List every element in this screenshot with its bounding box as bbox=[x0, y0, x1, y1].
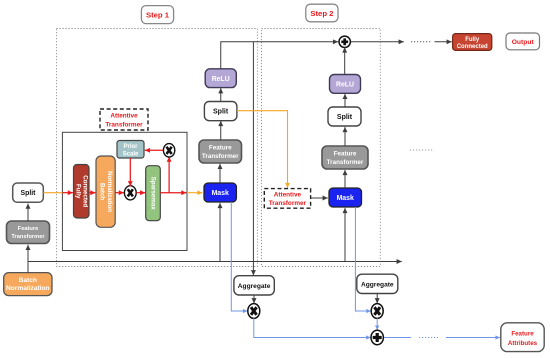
step 1 dashed region bbox=[57, 29, 258, 267]
dots continuation top right bbox=[411, 41, 431, 43]
step 2 dashed region bbox=[262, 29, 381, 267]
relu 2 bbox=[330, 75, 361, 94]
split 2 bbox=[328, 107, 361, 126]
multiply node (bottom left) bbox=[248, 304, 260, 319]
svg-text:Transformer: Transformer bbox=[327, 159, 364, 166]
svg-text:Fully: Fully bbox=[75, 184, 82, 199]
attentive transformer 2 (dashed) bbox=[264, 189, 310, 209]
feature transformer 2 bbox=[322, 146, 368, 169]
svg-text:Feature: Feature bbox=[334, 150, 357, 157]
feature transformer (left) bbox=[7, 221, 50, 244]
wire: feature transformer 2 up to split 2 bbox=[344, 127, 346, 146]
svg-text:Feature: Feature bbox=[209, 144, 232, 151]
fully connected output box bbox=[453, 34, 492, 51]
wire: bn to multiply node (red) bbox=[115, 192, 124, 194]
prior scale box bbox=[117, 141, 144, 159]
svg-text:Attentive: Attentive bbox=[110, 113, 138, 120]
svg-text:Feature: Feature bbox=[18, 226, 39, 232]
wire: split 1 to attentive transformer 2 (orange) bbox=[237, 111, 288, 188]
wire: branch down to aggregate 1 bbox=[252, 42, 254, 275]
multiply node (bottom right) bbox=[371, 304, 383, 319]
multiply node (prior) bbox=[124, 186, 136, 200]
output box bbox=[506, 33, 540, 50]
mask 2 bbox=[329, 188, 362, 207]
wire: fc to bn (red) bbox=[89, 192, 95, 194]
wire: split 2 up to relu 2 bbox=[344, 94, 346, 107]
batch normalization (input) bbox=[4, 273, 52, 296]
mask 1 bbox=[204, 183, 236, 202]
plus node (bottom) bbox=[371, 330, 383, 344]
svg-text:ReLU: ReLU bbox=[212, 76, 230, 83]
wire: mask 1 down (blue) bbox=[231, 202, 247, 311]
fully connected (vertical) bbox=[74, 165, 90, 219]
svg-text:Transformer: Transformer bbox=[105, 121, 143, 128]
step 2 label bbox=[306, 4, 338, 22]
svg-text:Batch: Batch bbox=[99, 183, 106, 200]
svg-text:Prior: Prior bbox=[123, 144, 138, 150]
wire: multiply to prior scale (red) bbox=[145, 149, 163, 151]
sum node (top) bbox=[339, 36, 350, 47]
svg-text:Fully: Fully bbox=[465, 37, 480, 43]
svg-text:Split: Split bbox=[337, 114, 353, 121]
svg-text:Connected: Connected bbox=[457, 44, 488, 50]
wire: feature line up into mask 1 bbox=[219, 203, 221, 262]
svg-text:Transformer: Transformer bbox=[11, 234, 45, 240]
step 1 label bbox=[141, 6, 173, 24]
feature transformer 1 bbox=[199, 140, 242, 163]
wire: feature transformer 1 up to split 1 bbox=[220, 121, 222, 140]
wire: plus node right (blue) bbox=[384, 337, 411, 339]
svg-text:Attributes: Attributes bbox=[508, 340, 538, 347]
svg-text:Step 1: Step 1 bbox=[146, 11, 170, 20]
wire: sparsemax output (red) bbox=[160, 192, 186, 194]
svg-text:Sparsemax: Sparsemax bbox=[150, 177, 157, 211]
svg-text:Scale: Scale bbox=[123, 151, 139, 157]
wire: aggregate 2 down to multiply bbox=[376, 294, 378, 304]
wire: red branch up to multiply top bbox=[168, 157, 170, 193]
svg-text:Transformer: Transformer bbox=[202, 153, 239, 160]
svg-text:Mask: Mask bbox=[337, 195, 354, 202]
svg-text:Split: Split bbox=[213, 109, 229, 116]
wire: mask 2 down (blue) bbox=[355, 207, 371, 311]
wire: feature transformer up to split bbox=[27, 204, 29, 222]
wire: prior scale down to multiply (red) bbox=[129, 158, 131, 186]
attentive transformer 1 label (dashed) bbox=[100, 109, 148, 130]
svg-text:Feature: Feature bbox=[511, 331, 534, 338]
aggregate 2 bbox=[357, 274, 398, 293]
wire: multiply 1 down and right to plus (blue) bbox=[254, 318, 371, 337]
wire: mask 2 up to feature transformer 2 bbox=[344, 170, 346, 188]
svg-text:Output: Output bbox=[512, 39, 535, 46]
aggregate 1 bbox=[234, 276, 274, 295]
svg-text:Split: Split bbox=[21, 190, 37, 197]
wire: mask 1 up to feature transformer 1 bbox=[219, 164, 221, 183]
svg-text:Batch: Batch bbox=[19, 277, 37, 284]
svg-text:Mask: Mask bbox=[212, 190, 229, 197]
svg-text:Transformer: Transformer bbox=[269, 200, 307, 207]
svg-text:Step 2: Step 2 bbox=[310, 9, 333, 18]
feature attributes box bbox=[501, 323, 544, 352]
split 1 bbox=[204, 102, 237, 121]
wire: relu 2 up to sum node bbox=[344, 47, 346, 74]
wire: multiply 2 down to plus (blue) bbox=[376, 318, 378, 330]
feature wire (long horizontal) bbox=[28, 261, 402, 263]
wire: relu1 up and right to sum node bbox=[221, 42, 338, 69]
relu 1 bbox=[205, 69, 236, 88]
wire: detail box to mask (orange) bbox=[187, 192, 202, 194]
wire: feature line up into mask 2 bbox=[344, 208, 346, 262]
svg-text:Connected: Connected bbox=[82, 175, 89, 207]
wire: split to attentive transformer (orange) bbox=[43, 192, 62, 194]
svg-text:Normalization: Normalization bbox=[6, 285, 50, 292]
wire: sum node output right bbox=[351, 41, 404, 43]
sparsemax bbox=[146, 166, 161, 221]
wire: aggregate 1 down to multiply bbox=[253, 295, 255, 303]
dots continuation bottom (blue) bbox=[419, 337, 438, 339]
svg-text:ReLU: ReLU bbox=[336, 81, 354, 88]
wire: batch norm up to feature transformer bbox=[27, 245, 29, 273]
svg-text:Aggregate: Aggregate bbox=[238, 283, 271, 290]
wire: into fully connected (red) bbox=[62, 192, 73, 194]
svg-text:Aggregate: Aggregate bbox=[361, 282, 394, 289]
wire: attentive transformer 2 to mask 2 bbox=[311, 197, 328, 199]
multiply node (top right of detail) bbox=[163, 144, 174, 157]
wire: into fully connected bbox=[435, 41, 452, 43]
svg-text:Attentive: Attentive bbox=[274, 191, 302, 198]
wire: multiply to sparsemax (red) bbox=[136, 192, 145, 194]
split (left) bbox=[13, 183, 44, 202]
attentive transformer 1 detail box bbox=[62, 132, 187, 250]
batch normalization (vertical) bbox=[96, 156, 115, 227]
wire: into feature attributes (blue) bbox=[446, 337, 500, 339]
dots continuation mid right bbox=[410, 149, 433, 151]
svg-text:Normalization: Normalization bbox=[106, 171, 113, 212]
wire: split 1 up to relu 1 bbox=[220, 88, 222, 101]
